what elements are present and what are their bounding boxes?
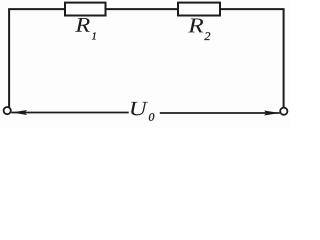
label U0 [131,102,148,116]
arrowhead right [264,111,280,116]
label R1 [75,18,90,32]
wire left: from R1 across top-left corner down to left terminal [9,9,65,107]
terminal left (open circle) [4,107,11,114]
arrowhead left [12,110,28,115]
resistor R1 [65,3,106,16]
dimension line right segment [160,112,280,114]
wire right: from R2 across top-right corner down to right terminal [220,9,284,107]
resistor R2 [178,3,220,16]
label R2 [188,19,203,33]
dimension line left segment [11,112,128,114]
wire between R1 and R2 [106,8,179,10]
terminal right (open circle) [280,108,287,115]
